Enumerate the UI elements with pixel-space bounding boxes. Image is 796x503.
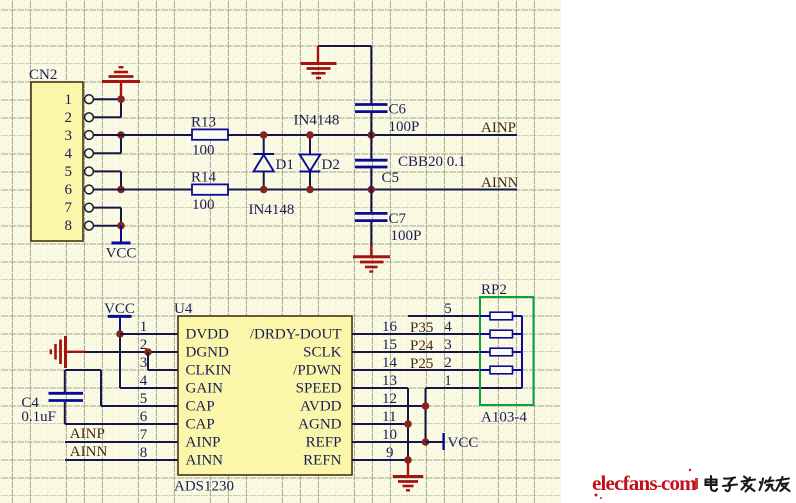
svg-text:R13: R13 (191, 115, 216, 131)
svg-text:D1: D1 (276, 157, 294, 173)
wire AINN row (65, 459, 178, 461)
wire pin4 stub (93, 152, 121, 154)
ground GND left of U4 (51, 336, 86, 368)
svg-text:11: 11 (382, 409, 396, 425)
svg-text:C7: C7 (389, 211, 407, 227)
wire pin7-pin8 vertical (120, 208, 122, 226)
wire pin10 REFP (352, 441, 426, 443)
svg-text:5: 5 (444, 301, 452, 317)
svg-text:3: 3 (65, 128, 73, 144)
svg-text:DGND: DGND (186, 345, 229, 361)
svg-text:U4: U4 (174, 301, 193, 317)
pin 4 GAIN (140, 373, 223, 397)
junction pin8 (117, 222, 125, 230)
wire C7 bottom (370, 222, 372, 246)
junction REFP (422, 438, 430, 446)
wire GAIN row (120, 387, 178, 389)
wire pin3-pin4 vertical (120, 135, 122, 153)
svg-text:0.1uF: 0.1uF (21, 409, 56, 425)
svg-text:/PDWN: /PDWN (293, 363, 342, 379)
svg-text:2: 2 (65, 110, 73, 126)
wire RP2 pin5 stub (408, 315, 480, 317)
wire DGND row (85, 351, 178, 353)
wire pin13 SPEED (352, 387, 408, 389)
wire pin5 stub (93, 170, 121, 172)
svg-text:6: 6 (140, 409, 148, 425)
junction AGND (404, 420, 412, 428)
wire pin7 stub (93, 207, 121, 209)
svg-text:AINN: AINN (186, 453, 224, 469)
pin 10 REFP (306, 427, 397, 451)
wire CAP6 row (65, 423, 178, 425)
svg-text:6: 6 (65, 182, 73, 198)
svg-text:AVDD: AVDD (300, 399, 342, 415)
pin 2 DGND (140, 337, 229, 361)
svg-text:C5: C5 (382, 170, 400, 186)
svg-text:D2: D2 (322, 157, 340, 173)
pin 9 REFN (303, 445, 393, 469)
pin 7 (65, 200, 94, 216)
resistor RP2-b (480, 330, 522, 338)
svg-text:A103-4: A103-4 (481, 410, 527, 426)
pin 1 (65, 92, 94, 108)
svg-text:P24: P24 (410, 338, 434, 354)
wire C4 top link (65, 369, 101, 371)
svg-text:14: 14 (382, 355, 398, 371)
junction pin6 (117, 186, 125, 194)
svg-text:5: 5 (65, 164, 73, 180)
wire top horizontal to ground (318, 45, 371, 47)
svg-text:15: 15 (382, 337, 397, 353)
power VCC above U4 (104, 301, 135, 334)
junction D2-AINN (306, 186, 314, 194)
svg-text:1: 1 (140, 319, 148, 335)
junction C6-AINP (368, 131, 376, 139)
svg-text:8: 8 (140, 445, 148, 461)
capacitor C6 (355, 102, 419, 136)
svg-text:IN4148: IN4148 (294, 113, 340, 129)
svg-text:9: 9 (386, 445, 394, 461)
svg-text:VCC: VCC (106, 246, 137, 262)
svg-text:CAP: CAP (186, 399, 215, 415)
pin 15 SCLK (303, 337, 397, 361)
svg-text:4: 4 (65, 146, 73, 162)
wire pin14 to RP2 pin2 (352, 369, 480, 371)
svg-text:AINP: AINP (481, 120, 516, 136)
svg-text:AINP: AINP (70, 426, 105, 442)
svg-text:4: 4 (444, 319, 452, 335)
wire RP2 bus vertical (521, 316, 523, 388)
wire pin9 REFN (352, 459, 408, 461)
svg-text:4: 4 (140, 373, 148, 389)
pin 1 DVDD (140, 319, 229, 343)
pin 16 /DRDY-DOUT (250, 319, 398, 343)
junction D2-AINP (306, 131, 314, 139)
pin 13 SPEED (296, 373, 397, 397)
wire C7 top (370, 190, 372, 213)
diode D1 (254, 135, 294, 190)
svg-text:elecfans-com: elecfans-com (592, 471, 697, 495)
pin 3 (65, 128, 94, 144)
pin 12 AVDD (300, 391, 397, 415)
pin 8 AINN (140, 445, 223, 469)
svg-text:13: 13 (382, 373, 397, 389)
capacitor C7 (355, 211, 421, 244)
junction D1-AINP (260, 131, 268, 139)
pin 14 /PDWN (293, 355, 397, 379)
junction pin1 (117, 95, 125, 103)
wire CLKIN row (148, 369, 178, 371)
wire pin5-pin6 vertical (120, 171, 122, 189)
svg-text:CAP: CAP (186, 417, 215, 433)
pin 5 (65, 164, 94, 180)
wire AINP row (65, 441, 178, 443)
svg-text:12: 12 (382, 391, 397, 407)
pin 4 (65, 146, 94, 162)
svg-text:2: 2 (444, 355, 452, 371)
wire AINN net left (93, 189, 192, 191)
junction D1-AINN (260, 186, 268, 194)
svg-text:AINN: AINN (70, 444, 108, 460)
ground GND top of CN2 (102, 67, 140, 99)
wire AINP net left (93, 134, 192, 136)
ground GND top middle (301, 46, 337, 78)
resistor network RP2 (480, 282, 534, 426)
svg-text:VCC: VCC (448, 435, 479, 451)
op-amp U4 ADS1230 (174, 301, 352, 495)
connector CN2 (29, 67, 83, 241)
pin 8 (65, 218, 94, 234)
svg-text:R14: R14 (191, 170, 217, 186)
wire DVDD row (120, 333, 178, 335)
junction REFN (404, 456, 412, 464)
wire CAP5 row (101, 405, 178, 407)
pin 6 (65, 182, 94, 198)
diode D2 (300, 135, 340, 190)
pin 11 AGND (298, 409, 396, 433)
wire C6 top (370, 46, 372, 103)
svg-text:IN4148: IN4148 (249, 202, 295, 218)
svg-text:100: 100 (192, 197, 215, 213)
svg-text:8: 8 (65, 218, 73, 234)
svg-text:VCC: VCC (104, 301, 135, 317)
wire pin15 to RP2 pin3 (352, 351, 480, 353)
svg-text:C6: C6 (389, 102, 407, 118)
svg-text:2: 2 (140, 337, 148, 353)
svg-text:ADS1230: ADS1230 (174, 479, 234, 495)
resistor RP2-d (480, 366, 522, 374)
svg-text:7: 7 (65, 200, 73, 216)
svg-text:/DRDY-DOUT: /DRDY-DOUT (250, 327, 342, 343)
wire C5 top (370, 135, 372, 159)
svg-text:P35: P35 (410, 320, 433, 336)
svg-text:AGND: AGND (298, 417, 341, 433)
capacitor C4 (21, 393, 83, 425)
wire RP2 pin1 row (426, 387, 523, 389)
logo chinese 电子发烧友 (706, 476, 790, 492)
svg-text:1: 1 (65, 92, 73, 108)
svg-text:100: 100 (192, 143, 215, 159)
junction C5-AINN (368, 186, 376, 194)
junction DVDD-VCC (116, 330, 124, 338)
svg-text:REFN: REFN (303, 453, 342, 469)
svg-text:1: 1 (444, 373, 452, 389)
junction pin3 (117, 131, 125, 139)
resistor RP2-c (480, 348, 522, 356)
wire SPEED ground vertical (407, 388, 409, 460)
wire AINP net right (228, 134, 517, 136)
svg-text:16: 16 (382, 319, 398, 335)
wire pin8 stub (93, 225, 121, 227)
svg-text:P25: P25 (410, 356, 433, 372)
junction AVDD (422, 402, 430, 410)
wire VCC to GAIN vertical (119, 334, 121, 388)
wire DGND to CLKIN vertical (147, 352, 149, 370)
ground GND below C7 (353, 246, 390, 272)
pin 3 CLKIN (140, 355, 232, 379)
svg-text:AINN: AINN (481, 175, 519, 191)
wire pin12 AVDD (352, 405, 426, 407)
svg-text:10: 10 (382, 427, 397, 443)
resistor R13 (191, 115, 228, 159)
svg-text:SPEED: SPEED (296, 381, 342, 397)
power VCC right (426, 433, 479, 451)
wire C5 bottom (370, 168, 372, 189)
svg-text:100P: 100P (391, 228, 422, 244)
svg-text:3: 3 (444, 337, 452, 353)
logo elecfans.com (592, 469, 698, 499)
svg-text:CBB20 0.1: CBB20 0.1 (398, 154, 466, 170)
ground GND bottom (393, 460, 423, 490)
pin 7 AINP (140, 427, 221, 451)
svg-text:SCLK: SCLK (303, 345, 342, 361)
svg-text:5: 5 (140, 391, 148, 407)
pin 6 CAP (140, 409, 215, 433)
wire CAP5 vertical (100, 370, 102, 406)
svg-text:REFP: REFP (306, 435, 342, 451)
resistor RP2-a (480, 312, 522, 320)
svg-text:3: 3 (140, 355, 148, 371)
svg-text:DVDD: DVDD (186, 327, 229, 343)
wire RP2 common vertical (425, 388, 427, 442)
wire pin16 to RP2 pin4 (352, 333, 480, 335)
junction DGND-CLKIN (144, 348, 152, 356)
wire pin1 stub (93, 98, 121, 100)
svg-text:100P: 100P (389, 119, 420, 135)
pin 2 (65, 110, 94, 126)
wire pin11 AGND (352, 423, 408, 425)
svg-text:CN2: CN2 (29, 67, 57, 83)
svg-text:AINP: AINP (186, 435, 221, 451)
pin 5 CAP (140, 391, 215, 415)
wire AINN net right (228, 189, 517, 191)
svg-text:CLKIN: CLKIN (186, 363, 232, 379)
svg-text:GAIN: GAIN (186, 381, 224, 397)
wire C6 bottom (370, 113, 372, 135)
wire C4 bottom vertical (64, 402, 66, 424)
resistor R14 (191, 170, 228, 214)
wire C4 top vertical (64, 370, 66, 392)
svg-text:7: 7 (140, 427, 148, 443)
power VCC below CN2 (106, 226, 137, 262)
wire pin2 stub (93, 116, 121, 118)
capacitor C5 (355, 154, 466, 186)
svg-text:RP2: RP2 (481, 282, 507, 298)
wire pin1-pin2 vertical (120, 99, 122, 117)
